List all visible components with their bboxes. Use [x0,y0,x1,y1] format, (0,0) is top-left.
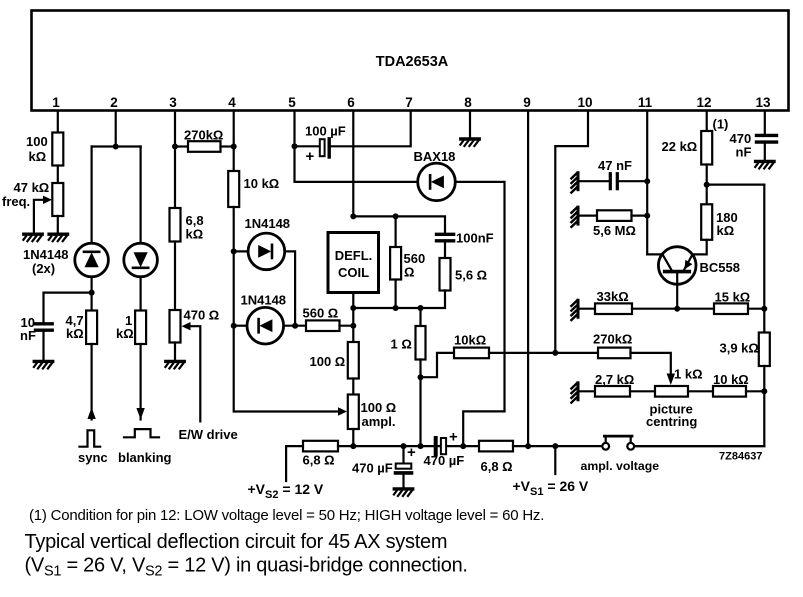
svg-text:22 kΩ: 22 kΩ [662,139,698,154]
junction right column / 10k row [761,388,767,394]
capacitor 100uF electrolytic plates [320,139,325,156]
centring wiper arrowhead [667,374,675,386]
svg-text:kΩ: kΩ [29,149,47,164]
wire pin4 to ampl pot wiper [234,326,338,412]
svg-text:kΩ: kΩ [717,223,735,238]
junction pin4 / 270k [231,144,237,150]
wire 10k row to right column [746,390,764,392]
wire VS1 feed [554,446,556,474]
wire 10nF to ground [42,332,44,360]
junction rail / pot100 [350,443,356,449]
wire 270k to centring wiper [631,353,671,375]
wire pin1 to R100k [57,111,59,133]
wire to R100 [352,326,354,342]
wire junction to R4.7k [90,293,92,311]
junction pin11 / 5.6M [644,213,650,219]
svg-text:kΩ: kΩ [186,227,204,242]
resistor 560 ohm (vertical) [390,247,401,280]
wire 560 to pin6 net [340,325,354,327]
svg-text:100 Ω: 100 Ω [361,400,397,415]
wire 33k to Q1 base junction [632,308,714,310]
svg-text:(1): (1) [713,117,729,132]
svg-text:470 µF: 470 µF [424,453,465,468]
wire pin3 down [174,111,176,147]
svg-text:3: 3 [169,95,177,110]
potentiometer 100 ohm ampl [348,395,359,430]
junction pin4/D3 [231,248,237,254]
transistor Q1 BC558 circle [658,247,696,285]
junction right column / 15k row [761,306,767,312]
wire pin9 to bottom rail [527,111,529,446]
wire pin5 to BAX18 [295,146,419,182]
ground under 10nF [34,361,53,368]
wire R6.8k to pot470 [174,242,176,311]
capacitor 100nF plates [437,233,454,236]
svg-text:kΩ: kΩ [116,326,134,341]
wire pin5 down [293,111,295,146]
diode D4 1N4148 circle (pointing left) [247,307,284,344]
svg-text:ampl.: ampl. [362,414,396,429]
switch ampl voltage bar [606,437,631,442]
junction pin5 / 100uF [292,143,298,149]
svg-text:kΩ: kΩ [66,326,84,341]
resistor 1 ohm [416,326,426,360]
bottom rail mid segment [513,445,602,447]
svg-text:100: 100 [26,134,48,149]
wire D4 right lead [284,325,306,327]
wire pin10 offset [555,111,588,353]
wire pin11 to Q1 collector lead [647,253,662,255]
svg-text:11: 11 [638,95,653,110]
wall ground 47nF [571,173,578,193]
svg-text:+: + [407,444,416,461]
svg-text:1N4148: 1N4148 [245,216,291,231]
wire 560v bottom [395,280,397,309]
junction pin4/D4 [231,323,237,329]
junction rail / BAX column [460,443,466,449]
wiper arrowhead 47k [43,196,52,204]
wire 560v top [395,216,397,247]
junction 560v bottom [393,305,399,311]
capacitor 470nF plates [757,134,777,137]
right column wire [763,185,765,333]
wire BAX column to bottom rail [463,411,504,446]
resistor R 100k (pin1 top) [52,133,63,166]
svg-text:2,7 kΩ: 2,7 kΩ [595,372,634,387]
wire 15k to right column [748,308,764,310]
svg-text:nF: nF [20,328,36,343]
junction pin11 / 47nF [644,178,650,184]
junction pin2 [113,144,119,150]
junction 1ohm top [418,305,424,311]
svg-text:DEFL.: DEFL. [335,248,373,263]
junction coil bottom rail [350,305,356,311]
svg-text:1N4148: 1N4148 [23,247,69,262]
ground under 47k wiper [23,234,42,241]
wire 470nF to ground [764,143,766,159]
wire R100k to pot 47k [57,166,59,184]
junction 22k/180k/right column [704,182,710,188]
svg-text:100nF: 100nF [456,231,494,246]
wire pot47k to ground [57,216,59,234]
svg-text:BC558: BC558 [700,260,740,275]
wire pin4 D3 to D4 [233,251,235,325]
ampl wiper arrowhead [338,407,347,415]
wire 1ohm top lead [419,308,421,326]
svg-text:BAX18: BAX18 [414,149,456,164]
resistor 10k (mid) [454,348,489,359]
wire damper top horizontal [353,216,445,232]
resistor 3,9k [759,333,770,367]
svg-text:TDA2653A: TDA2653A [376,54,449,70]
resistor 33k [595,303,632,314]
blanking input arrowhead (down) [136,408,144,420]
wire pin11 down [646,111,648,254]
diode D1 1N4148 circle (cathode up) [75,243,109,277]
wire pin5 to C100uF [295,145,320,147]
svg-text:(2x): (2x) [32,261,55,276]
ground under 470uF shunt [394,489,413,496]
switch ampl voltage contacts [602,443,609,450]
wire pot470 to ground [174,343,176,360]
wire ground to 33k [580,308,596,310]
wire ground to 5.6M [580,215,598,217]
wire node to 180k [706,185,708,205]
potentiometer 470 ohm E/W [170,310,181,343]
ground under pin1 branch [49,234,68,241]
wire D4 left lead [234,325,247,327]
junction rail / 470uF shunt [401,443,407,449]
wire 1ohm down to rail [419,360,421,447]
wire R10k to D3 [233,207,235,251]
wire tap to R10k mid [421,353,455,377]
resistor 6,8 ohm (left) [303,441,338,452]
svg-text:10: 10 [577,95,592,110]
resistor 100 ohm [348,342,359,379]
svg-text:10 kΩ: 10 kΩ [713,372,749,387]
wire R100 to pot100 [352,379,354,395]
capacitor 47nF plates [609,174,612,189]
wire pin3 to R6.8k [174,147,176,209]
svg-text:sync: sync [78,450,108,465]
wire 2.7k to pot1k [630,390,655,392]
svg-text:+: + [449,429,458,446]
sync input arrowhead (up) [87,408,95,420]
wire 5.6ohm bottom [353,291,445,309]
wire ground to 2.7k [580,390,596,392]
resistor 10k (pin4) [228,171,239,207]
wall ground 2.7k [571,383,578,403]
junction 1ohm / 10k tap [418,374,424,380]
svg-text:9: 9 [523,95,531,110]
svg-text:13: 13 [755,95,771,110]
svg-text:(1) Condition for pin 12: LOW: (1) Condition for pin 12: LOW voltage le… [29,507,544,524]
wire 470uF shunt to ground [402,475,404,488]
resistor 270k (row) [598,348,631,359]
resistor 6,8 ohm (right) [479,441,513,452]
Q1 collector diagonal [663,254,672,270]
wire pin2 down [115,111,117,147]
wall ground 5.6M [571,207,578,227]
svg-text:270kΩ: 270kΩ [184,128,223,143]
bottom rail left segment [338,445,479,447]
resistor 2,7k [595,386,630,397]
wire pot100 to bottom rail [352,429,354,446]
wire 47nF to pin11 [619,180,647,182]
junction pin6 damper top [350,213,356,219]
svg-text:100 Ω: 100 Ω [310,354,346,369]
wire 100nF to 5.6ohm [444,243,446,259]
ground pin8 [460,139,479,146]
wire D3 right lead and down [285,251,295,325]
junction pin3 / 270k [172,144,178,150]
resistor 22k [701,131,712,165]
resistor 15k [714,303,748,314]
svg-text:6: 6 [347,95,355,110]
wire D2 to R1k [140,277,142,311]
diode D2 1N4148 circle (cathode down) [124,243,158,277]
svg-text:Typical vertical deflection ci: Typical vertical deflection circuit for … [25,531,448,553]
svg-text:6,8 Ω: 6,8 Ω [481,459,513,474]
wire R10k mid to right rows [489,352,598,354]
wire pot1k to 10k [688,390,713,392]
svg-text:10kΩ: 10kΩ [454,333,486,348]
resistor 6.8k (pin3) [170,208,181,242]
wire pin4 down [233,111,235,147]
svg-text:COIL: COIL [338,265,369,280]
wire D3 left lead [234,250,248,252]
wiper wire 47k freq [34,200,44,232]
wire R270k to pin4 [221,145,234,147]
svg-text:8: 8 [464,95,472,110]
ground under pot470 [165,361,184,368]
capacitor 470uF shunt plates [396,464,412,469]
svg-text:freq.: freq. [2,194,30,209]
wire pin6 down to junction [352,111,354,216]
junction rail / VS1 feed [552,443,558,449]
svg-text:1 Ω: 1 Ω [391,337,412,352]
blanking pulse symbol [124,429,159,437]
capacitor 10nF plates [36,322,53,325]
resistor 10k (row) [713,386,746,397]
deflection coil box [328,233,379,293]
svg-text:Ω: Ω [404,265,414,280]
wire coil bottom [352,293,354,326]
Q1 emitter diagonal with arrow [684,254,693,270]
diode D3 1N4148 circle (pointing right) [248,233,285,270]
wire 22k to node [706,165,708,185]
wire 5.6M to pin11 [632,215,648,217]
E/W wiper arrowhead [182,322,191,330]
svg-text:270kΩ: 270kΩ [593,332,632,347]
svg-text:5: 5 [288,95,296,110]
junction Q1 base / 33k row [674,306,680,312]
svg-text:blanking: blanking [118,450,172,465]
svg-text:E/W drive: E/W drive [179,427,238,442]
wire VS2 feed [286,446,303,481]
wire pin3 to R270k [175,145,188,147]
svg-text:3,9 kΩ: 3,9 kΩ [720,341,759,356]
svg-text:4: 4 [228,95,236,110]
wire pin13 to 470nF [764,111,766,133]
junction pin10 column / row [552,350,558,356]
junction D1/10nF/4.7k [89,290,95,296]
IC U1 TDA2653A body [32,11,789,111]
svg-text:10 kΩ: 10 kΩ [244,176,280,191]
wire pin8 stub [469,111,471,137]
svg-text:7: 7 [405,95,413,110]
svg-text:(VS1 = 26 V, VS2 = 12 V) in qu: (VS1 = 26 V, VS2 = 12 V) in quasi-bridge… [25,555,468,580]
resistor 180k [701,204,712,240]
Q1 base lead down [676,273,678,308]
svg-text:+: + [306,148,315,165]
wire C100uF to pin7 [331,111,411,146]
svg-text:5,6 MΩ: 5,6 MΩ [593,223,636,238]
wall ground 33k [571,300,578,320]
wire pin2 horizontal to diode branches [92,145,141,147]
wire R4.7k to sync input [90,344,92,420]
svg-text:470 µF: 470 µF [352,461,393,476]
wire pin12 to 22k [706,111,708,131]
wire ground to 47nF [580,180,609,182]
svg-text:centring: centring [646,414,697,429]
svg-text:100 µF: 100 µF [305,124,346,139]
resistor 5,6 MOhm [597,210,632,221]
svg-text:47 kΩ: 47 kΩ [14,180,50,195]
resistor 4.7k [86,311,97,345]
resistor 270k (pins 3-4) [188,141,221,152]
junction 560v top [393,213,399,219]
junction rail / 1ohm column [418,443,424,449]
svg-text:1 kΩ: 1 kΩ [674,367,703,382]
wire to diode D2 top [140,147,142,244]
wire to diode D1 top [90,147,92,244]
resistor 1k [135,311,146,345]
svg-text:470 Ω: 470 Ω [184,308,220,323]
potentiometer 47k freq [52,183,63,216]
wire node to right column top [707,184,765,186]
wire D1 to junction [90,277,92,293]
resistor 5,6 ohm [440,258,451,291]
junction 560h / pin6 net [350,323,356,329]
wire R1k to blanking input [140,344,142,420]
wire junction to 10nF [44,293,92,322]
svg-text:47 nF: 47 nF [598,158,632,173]
svg-text:7Z84637: 7Z84637 [719,451,762,463]
diode D5 BAX18 circle (pointing left) [418,163,456,201]
svg-text:12: 12 [696,95,711,110]
junction D3/D4 right [292,323,298,329]
junction rail / pin9 [525,443,531,449]
svg-text:nF: nF [736,145,752,160]
wire 180k to Q1 emitter [693,240,707,255]
svg-text:33kΩ: 33kΩ [597,289,629,304]
svg-text:2: 2 [110,95,118,110]
wire BAX18 right to down-column [455,182,504,412]
right column wire lower [634,366,764,446]
Q1 base bar [665,270,690,274]
bottom rail right segment [634,445,764,447]
resistor 560 ohm (horizontal) [306,320,340,331]
svg-text:560 Ω: 560 Ω [303,306,339,321]
potentiometer 1k picture centring [655,386,688,397]
wire pin4 to R10k [233,147,235,172]
ground under 470nF [755,161,774,168]
svg-text:6,8 Ω: 6,8 Ω [303,453,335,468]
svg-text:1N4148: 1N4148 [241,293,287,308]
wire 470uF shunt top [402,446,404,463]
sync pulse symbol [80,430,101,446]
svg-text:ampl. voltage: ampl. voltage [581,459,660,473]
svg-text:5,6 Ω: 5,6 Ω [455,268,487,283]
svg-text:15 kΩ: 15 kΩ [715,290,751,305]
capacitor 470uF series plates [434,438,438,454]
svg-text:1: 1 [52,95,60,110]
E/W drive wiper wire [190,326,201,421]
